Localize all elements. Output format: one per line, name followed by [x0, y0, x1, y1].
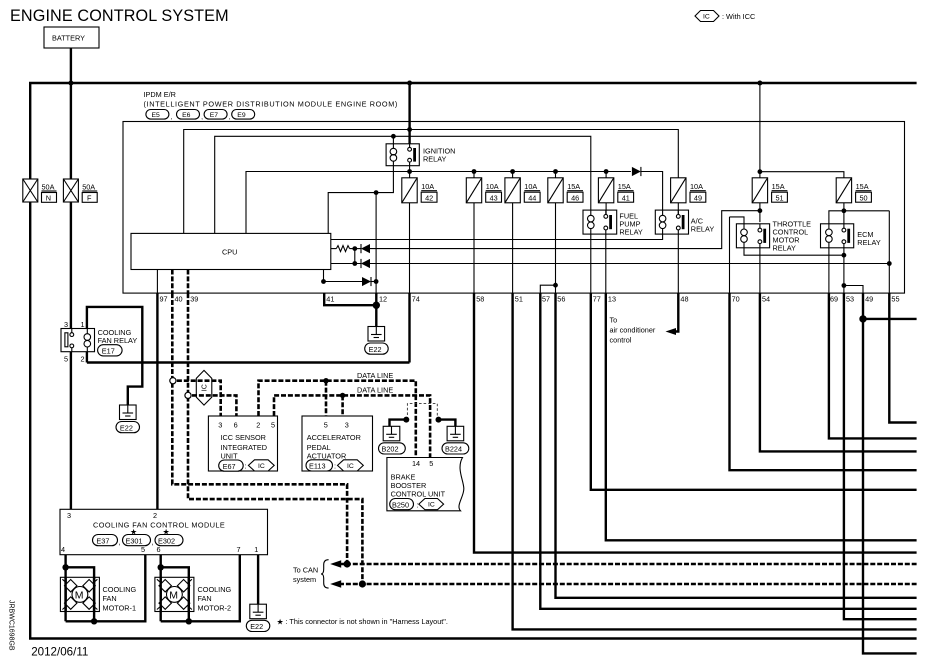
svg-text:15A: 15A: [772, 182, 785, 191]
fusible link N 50A: [23, 179, 57, 202]
wire fuse50 to ECM switch: [843, 203, 845, 228]
wire main battery bus: [30, 83, 916, 179]
svg-text:5: 5: [429, 459, 433, 468]
svg-text:control: control: [610, 336, 632, 345]
wire accel pin3 dashed: [341, 395, 344, 416]
wire pin12 to ground: [375, 293, 377, 326]
svg-text:49: 49: [694, 193, 702, 202]
svg-text:E9: E9: [237, 112, 246, 119]
node battery bus junction: [68, 81, 73, 86]
wire resistor to diode: [350, 248, 361, 250]
wire pin54 down and right: [760, 293, 917, 451]
svg-text:M: M: [75, 589, 84, 601]
wire pin57 down and right: [540, 293, 916, 609]
wire CAN line 1 dashed: [339, 563, 917, 566]
svg-text:UNIT: UNIT: [221, 452, 239, 461]
IC hexagon E113: [338, 460, 364, 471]
svg-text:B202: B202: [382, 445, 399, 454]
svg-text:MOTOR-1: MOTOR-1: [103, 603, 137, 612]
wire rail B to ground E22: [128, 363, 143, 406]
node pin55 diode junction: [887, 261, 892, 266]
wire relay pin2 to rail B: [86, 352, 88, 363]
svg-text::: :: [417, 500, 419, 509]
svg-text:COOLING FAN CONTROL MODULE: COOLING FAN CONTROL MODULE: [93, 521, 225, 530]
wire pin49 rail to right edge: [863, 318, 917, 320]
svg-text:51: 51: [515, 295, 523, 304]
wire pin12 line upper: [375, 193, 377, 294]
svg-text:B250: B250: [392, 500, 409, 509]
svg-text:E7: E7: [210, 112, 219, 119]
node pin49 rail big junction: [859, 315, 866, 322]
svg-text:6: 6: [234, 420, 238, 429]
connector E113 oval: [306, 460, 333, 471]
wire motor1 return to module pin5: [66, 555, 146, 622]
ECM relay: [821, 224, 854, 248]
wire fuse N down left border to bottom rail: [30, 202, 916, 639]
wire fuse44 to pin 51: [512, 203, 514, 293]
svg-text:2: 2: [153, 511, 157, 520]
wire fuse44 top stub: [512, 172, 514, 178]
svg-text:IPDM E/R: IPDM E/R: [144, 90, 176, 99]
svg-text:1: 1: [254, 545, 258, 554]
wire CAN line 2 dashed: [339, 583, 917, 586]
wire motor1 top branch: [66, 567, 95, 621]
node connector circle pin40: [170, 378, 176, 384]
svg-text:44: 44: [528, 193, 536, 202]
svg-text:3: 3: [67, 511, 71, 520]
wire fuse43 top stub: [473, 172, 475, 178]
svg-text:15A: 15A: [856, 182, 869, 191]
fuse 51 15A: [752, 178, 787, 203]
IC hexagon B250: [419, 499, 444, 510]
svg-text:10A: 10A: [486, 182, 499, 191]
wire pin41 to pin12 ground rail: [324, 293, 376, 305]
svg-text:15A: 15A: [567, 182, 580, 191]
wire shield right to ground B224: [439, 420, 456, 427]
svg-text:5: 5: [324, 420, 328, 429]
connector B224 oval: [442, 443, 469, 454]
svg-text:,: ,: [229, 114, 231, 121]
svg-text:system: system: [293, 575, 316, 584]
wire shield left to ground B202: [390, 420, 407, 427]
node pin12 line start junction: [374, 190, 379, 195]
arrow CAN line 1: [330, 560, 341, 567]
svg-text::: :: [334, 462, 336, 471]
CPU box: [131, 233, 331, 269]
svg-text:41: 41: [326, 295, 334, 304]
svg-text:DATA LINE: DATA LINE: [357, 371, 393, 380]
wire rail3 fuse feed rail: [246, 172, 631, 234]
svg-text:3: 3: [64, 320, 68, 329]
wire pin70 down and right: [730, 293, 917, 470]
svg-text:49: 49: [865, 295, 873, 304]
svg-text:MOTOR-2: MOTOR-2: [198, 603, 232, 612]
svg-text:70: 70: [732, 295, 740, 304]
svg-text:1: 1: [81, 320, 85, 329]
svg-text:E301: E301: [126, 536, 143, 545]
wire pin97 to module pin2: [156, 293, 158, 509]
svg-text:E5: E5: [152, 112, 161, 119]
brake booster control unit box: [387, 458, 464, 511]
node pin12 ground big junction: [373, 302, 380, 309]
svg-text:ICC SENSOR: ICC SENSOR: [221, 433, 266, 442]
node wire3 left junction: [321, 279, 326, 284]
wire A/C switch to pin 48: [677, 234, 679, 293]
wire pin49 down: [863, 293, 917, 653]
fuel pump relay: [583, 210, 617, 234]
node CAN1 junction: [344, 560, 351, 567]
node rail3 fuse41 junction: [604, 169, 609, 174]
svg-text:3: 3: [345, 420, 349, 429]
wire pin69 down and right: [829, 293, 917, 438]
svg-text:39: 39: [190, 295, 198, 304]
IC hexagon E67: [248, 460, 274, 471]
diode D3: [362, 277, 371, 286]
wire pin39 CAN dashed down: [188, 293, 362, 584]
node data line2 accel junction: [340, 393, 345, 398]
wire rail1 bus feed inside IPDM to CPU and fuse 49: [184, 130, 679, 234]
wire accel pin5 dashed: [325, 381, 328, 416]
wire CPU pin41 stub: [323, 270, 325, 282]
node CAN2 junction: [359, 580, 366, 587]
connector E9 oval: [232, 110, 255, 120]
wire ECM switch to pin 53: [843, 248, 845, 293]
svg-text:FAN RELAY: FAN RELAY: [98, 336, 138, 345]
node diode link top junction: [352, 246, 357, 251]
node bus to ignition feed junction: [407, 81, 412, 86]
wire fuse41 to fuel pump switch: [605, 203, 607, 215]
svg-text:50A: 50A: [42, 183, 55, 192]
svg-text:48: 48: [680, 295, 688, 304]
ignition relay: [386, 144, 419, 166]
wire pin70 riser upper: [729, 217, 731, 293]
svg-text:,: ,: [201, 114, 203, 121]
svg-text:43: 43: [490, 193, 498, 202]
wire pin57 tap: [540, 285, 555, 293]
wire diode D1 to throttle riser: [370, 211, 760, 249]
IC hexagon tall: [196, 370, 212, 405]
svg-text:: This connector is not shown: : This connector is not shown in "Harnes…: [286, 617, 448, 626]
fuse 46 15A: [548, 178, 583, 203]
wire throttle coil top from pin70 riser: [730, 217, 745, 224]
svg-text:JRBWC1698GB: JRBWC1698GB: [8, 600, 15, 651]
wire data line 2: [274, 395, 430, 457]
svg-text:RELAY: RELAY: [423, 155, 447, 164]
wire battery to bus: [70, 48, 72, 83]
svg-text:5: 5: [64, 355, 68, 364]
wire pin51 down and right: [513, 293, 917, 629]
wire ignition coil top stub: [392, 136, 394, 147]
wire CPU diode line 2: [331, 263, 361, 265]
svg-text:E22: E22: [369, 345, 382, 354]
svg-text:E302: E302: [158, 536, 175, 545]
A/C relay: [655, 210, 688, 234]
svg-text:46: 46: [571, 193, 579, 202]
svg-text:74: 74: [412, 295, 420, 304]
wire fuse46 to pin 56: [555, 203, 557, 293]
svg-text:E6: E6: [182, 112, 191, 119]
svg-text:15A: 15A: [618, 182, 631, 191]
connector E37 oval: [93, 535, 118, 546]
svg-text:5: 5: [271, 420, 275, 429]
connector E302 oval: [155, 535, 183, 546]
resistor R1: [336, 246, 349, 252]
wire pin13 down and right: [606, 293, 917, 540]
node rail1 battery junction: [407, 127, 412, 132]
diode D4 on rail3: [632, 167, 641, 176]
wire motor2 top branch: [161, 567, 189, 621]
svg-text:57: 57: [542, 295, 550, 304]
wire module pin1 to ground: [257, 555, 259, 605]
node fuse50 bottom junction: [842, 208, 847, 213]
wire data line 1: [259, 381, 416, 458]
wire fuse46 top stub: [555, 172, 557, 178]
wire pin74 to ground rail B: [408, 293, 410, 362]
wire fuse49 to A/C switch: [677, 203, 679, 215]
node fuse51 bottom junction: [758, 208, 763, 213]
svg-text:★: ★: [277, 618, 284, 627]
svg-text:42: 42: [425, 193, 433, 202]
svg-text:RELAY: RELAY: [857, 238, 881, 247]
svg-text:E22: E22: [250, 622, 263, 631]
wire rail2 CPU to ignition coil and fuel pump coil: [215, 136, 591, 233]
arrow CAN line 2: [330, 580, 341, 587]
connector E22 oval pin12: [365, 343, 389, 354]
connector B202 oval: [379, 443, 406, 454]
wire ECM coil top jog: [829, 211, 844, 224]
svg-text:53: 53: [846, 295, 854, 304]
svg-text:★: ★: [163, 527, 170, 536]
wire ECM coil to pin 69: [828, 248, 830, 293]
svg-text:54: 54: [762, 295, 770, 304]
svg-text:ENGINE CONTROL SYSTEM: ENGINE CONTROL SYSTEM: [10, 7, 229, 25]
svg-text:IC: IC: [202, 384, 209, 391]
svg-text:E67: E67: [223, 462, 236, 471]
node pin49 jog junction: [842, 283, 847, 288]
svg-text:41: 41: [622, 193, 630, 202]
svg-text:RELAY: RELAY: [619, 227, 643, 236]
wire ignition switch bottom to fuse 42: [409, 166, 411, 178]
fuse 42 10A: [402, 178, 437, 203]
diode D1: [361, 244, 370, 253]
node rail3 fuse46 junction: [553, 169, 558, 174]
fuse 43 10A: [466, 178, 501, 203]
battery B1: [44, 27, 99, 48]
svg-text:IC: IC: [258, 463, 265, 470]
wire CPU diode line to throttle relay feed: [331, 248, 337, 250]
ground symbol B202: [383, 426, 400, 441]
node rail2 ignition coil junction: [391, 134, 396, 139]
shield dashed box: [407, 404, 437, 420]
wire fuse43 to pin 58: [473, 203, 475, 293]
ground symbol E22 pin12: [368, 327, 385, 342]
wire CPU bottom pin 40: [171, 270, 174, 294]
svg-text:DATA LINE: DATA LINE: [357, 385, 393, 394]
svg-text:69: 69: [830, 295, 838, 304]
wire fuse42 to pin 74: [409, 203, 411, 293]
wire CPU to A/C relay coil: [331, 234, 663, 239]
svg-text:10A: 10A: [421, 182, 434, 191]
svg-text:To CAN: To CAN: [293, 566, 318, 575]
svg-text:E22: E22: [120, 423, 133, 432]
node fuse51 feed junction: [758, 169, 763, 174]
node motor1 top junction: [62, 564, 68, 570]
svg-text:5: 5: [141, 545, 145, 554]
svg-text:M: M: [169, 589, 178, 601]
connector E301 oval: [123, 535, 151, 546]
accelerator pedal actuator box: [302, 416, 373, 471]
node pin57 tap junction: [553, 283, 558, 288]
wire pin41 to pin12 upper: [324, 281, 363, 283]
node shield ground right junction: [436, 417, 442, 423]
wire fuse F to cooling fan relay pin 3: [70, 202, 72, 329]
svg-text:FAN: FAN: [198, 594, 212, 603]
fusible link F 50A: [63, 179, 97, 202]
node pin53 throttle junction: [842, 253, 847, 258]
connector E6 oval: [177, 110, 200, 120]
wire bus down to fuse F: [70, 83, 72, 179]
wire fuse41 top stub: [605, 172, 607, 178]
wire bus feed to fuses 51 and 50: [760, 83, 844, 178]
connector B250 oval: [390, 499, 414, 510]
wire diode D3 to pin12 line: [371, 281, 376, 283]
svg-text:58: 58: [476, 295, 484, 304]
connector E22 oval module: [246, 620, 269, 631]
svg-text:7: 7: [237, 545, 241, 554]
wire CPU bottom pin 39: [187, 270, 190, 294]
svg-text:,: ,: [119, 538, 121, 547]
svg-text:BATTERY: BATTERY: [52, 34, 85, 43]
arrow to air conditioner control: [666, 328, 677, 335]
ground symbol E22 fan relay: [120, 405, 137, 420]
svg-text:6: 6: [157, 545, 161, 554]
svg-text:,: ,: [171, 114, 173, 121]
svg-text:COOLING: COOLING: [103, 585, 137, 594]
svg-text:97: 97: [160, 295, 168, 304]
node rail3 ignition junction: [407, 169, 412, 174]
svg-text:To: To: [610, 316, 618, 325]
wire throttle coil bottom to pin53 line: [744, 248, 844, 255]
wire pin40 CAN dashed down: [172, 293, 347, 564]
svg-text:13: 13: [608, 295, 616, 304]
svg-text:12: 12: [379, 295, 387, 304]
diode D2: [361, 259, 370, 268]
wire CPU bottom pin 97: [156, 270, 158, 294]
wire link between diode lines: [354, 249, 356, 264]
svg-text:14: 14: [412, 459, 420, 468]
svg-text:IC: IC: [347, 463, 354, 470]
svg-text:10A: 10A: [524, 182, 537, 191]
connector E67 oval: [219, 460, 244, 471]
fuse 41 15A: [598, 178, 633, 203]
wire fuel pump coil to pin 77: [590, 234, 592, 293]
wire fuel pump switch to pin 13: [605, 234, 607, 293]
svg-text:50A: 50A: [82, 183, 95, 192]
wire battery feed to ignition relay switch: [408, 83, 410, 149]
node rail3 fuse43 junction: [472, 169, 477, 174]
svg-text:F: F: [87, 193, 92, 202]
wire diode D2 to pin 55 line: [370, 263, 889, 265]
cooling fan control module box: [60, 509, 268, 554]
svg-text:4: 4: [61, 545, 65, 554]
cooling fan motor 2: [155, 577, 194, 611]
svg-text:COOLING: COOLING: [198, 585, 232, 594]
svg-text:IC: IC: [703, 14, 710, 21]
svg-text:2: 2: [81, 355, 85, 364]
svg-text:55: 55: [891, 295, 899, 304]
wire ground rail B: [87, 361, 410, 363]
node wire3 right junction: [374, 279, 379, 284]
wire pin56 down and right: [556, 293, 917, 598]
svg-text:CONTROL UNIT: CONTROL UNIT: [391, 489, 446, 498]
wire pin49 jog: [844, 286, 863, 294]
ICC sensor integrated unit box: [208, 416, 277, 471]
wire pin48 to A/C arrow: [676, 293, 678, 331]
svg-text:51: 51: [776, 193, 784, 202]
wire dashed circle to ICC pin3: [177, 381, 221, 416]
IPDM E/R box: [123, 122, 905, 294]
node data line1 accel junction: [323, 378, 328, 383]
svg-text:E37: E37: [96, 536, 109, 545]
svg-text:: With ICC: : With ICC: [722, 12, 755, 21]
node motor1 bottom junction: [91, 618, 97, 624]
node rail3 fuse44 junction: [510, 169, 515, 174]
svg-text:,: ,: [152, 538, 154, 547]
ground symbol E22 module: [250, 604, 267, 619]
wire fuse50 to pin 55: [844, 211, 889, 293]
svg-text:2: 2: [256, 420, 260, 429]
brace CAN: [321, 560, 329, 588]
fuse 44 10A: [505, 178, 540, 203]
node connector circle pin39: [185, 392, 191, 398]
svg-text:ACCELERATOR: ACCELERATOR: [307, 433, 361, 442]
svg-text:3: 3: [218, 420, 222, 429]
node motor2 top junction: [158, 564, 164, 570]
svg-text:CPU: CPU: [222, 248, 237, 257]
connector E5 oval: [146, 110, 169, 120]
wire ignition coil bottom to CPU top: [328, 166, 393, 234]
wire fuse51 to throttle switch: [759, 203, 761, 222]
fuse 49 10A: [671, 178, 706, 203]
fuse 50 15A: [836, 178, 871, 203]
svg-text:10A: 10A: [690, 182, 703, 191]
svg-text:B224: B224: [445, 445, 462, 454]
connector E22 oval fan relay: [116, 422, 140, 433]
svg-text:40: 40: [175, 295, 183, 304]
svg-text:IC: IC: [428, 502, 435, 509]
wire pin55 down and right: [889, 293, 916, 422]
node diode link bottom junction: [352, 261, 357, 266]
throttle control motor relay: [736, 224, 769, 248]
svg-text:air conditioner: air conditioner: [610, 326, 656, 335]
svg-text:E17: E17: [102, 347, 115, 356]
svg-text:56: 56: [557, 295, 565, 304]
wire module pin6 to motor2: [159, 555, 161, 622]
svg-text:★: ★: [130, 527, 137, 536]
svg-text:2012/06/11: 2012/06/11: [31, 646, 88, 659]
wire pin58 down and right: [474, 293, 917, 552]
wire dashed circle to ICC pin6: [192, 395, 236, 416]
svg-text:N: N: [46, 193, 51, 202]
svg-text:FAN: FAN: [103, 594, 117, 603]
connector E17 oval: [98, 345, 123, 356]
svg-text:77: 77: [593, 295, 601, 304]
cooling fan motor 1: [60, 577, 99, 611]
node shield ground left junction: [403, 417, 409, 423]
svg-text:E113: E113: [309, 462, 326, 471]
node bus to fuse 51 feed junction: [757, 81, 762, 86]
wire motor2 return to module pin7: [161, 555, 240, 622]
